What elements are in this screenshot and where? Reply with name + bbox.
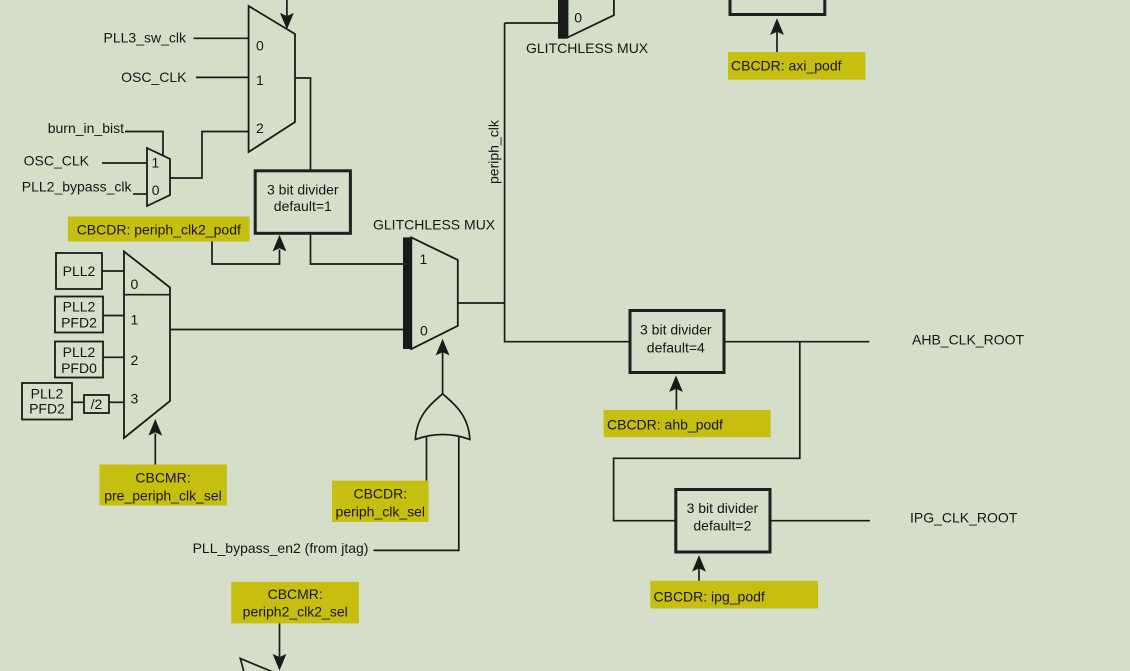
svg-text:1: 1 [131,311,139,327]
svg-text:IPG_CLK_ROOT: IPG_CLK_ROOT [910,510,1018,526]
svg-text:OSC_CLK: OSC_CLK [121,69,187,85]
divider D2 select arrow [776,32,778,53]
wire: periph_clk top into mux H input 0 [505,22,558,24]
svg-text:default=1: default=1 [274,198,332,214]
svg-text:CBCMR:: CBCMR: [135,470,190,486]
wire: yellow Y1 to divider D1 select [212,241,280,264]
wire /2 to mux C input 3 [109,401,124,403]
wire: PLL3_sw_clk into mux A input 0 [194,37,249,39]
yellow label Y5 CBCDR: axi_podf [728,52,865,80]
divider D1 (3 bit divider default=1) [255,171,350,234]
svg-text:AHB_CLK_ROOT: AHB_CLK_ROOT [912,332,1024,348]
wire: OSC_CLK into mux A input 1 [196,76,249,78]
svg-text:1: 1 [420,251,428,267]
mux B (bypass mux) [147,148,170,206]
yellow label Y3 CBCDR: periph_clk_sel [332,481,429,522]
svg-text:default=2: default=2 [693,518,751,534]
svg-text:CBCMR:: CBCMR: [268,586,323,602]
svg-text:PLL3_sw_clk: PLL3_sw_clk [104,29,187,45]
svg-text:0: 0 [131,276,139,292]
svg-text:PLL2: PLL2 [63,299,96,315]
OR gate G [415,394,469,440]
svg-text:default=4: default=4 [647,339,705,355]
mux F (bottom, cut off) [240,659,273,671]
svg-text:0: 0 [256,38,264,54]
mux E select arrowhead [436,339,450,356]
svg-text:0: 0 [574,10,582,26]
wire: AHB branch down to IPG divider [614,342,800,521]
wire: mux A output to divider D1 [295,78,311,171]
glitchless mux H (top) [558,0,567,39]
wire: AHB divider output to AHB_CLK_ROOT [724,341,869,343]
divider D3 (3 bit divider default=4) [630,311,724,373]
svg-text:1: 1 [152,155,160,171]
svg-text:CBCDR: periph_clk2_podf: CBCDR: periph_clk2_podf [77,221,241,237]
wire PLL2 PFD0 to mux C input 2 [103,356,124,358]
wire: burn_in_bist into mux B top [125,132,163,157]
svg-text:PFD0: PFD0 [61,360,97,376]
divider D2 (axi, cut off) [730,0,825,15]
svg-text:PLL2: PLL2 [63,344,96,360]
wire: PLL2_bypass_clk into mux B input 0 [133,193,148,195]
svg-text:3 bit divider: 3 bit divider [687,500,759,516]
svg-text:GLITCHLESS MUX: GLITCHLESS MUX [373,217,496,233]
svg-text:pre_periph_clk_sel: pre_periph_clk_sel [104,488,222,504]
wire: OSC_CLK into mux B input 1 [102,162,148,164]
wire: OR gate left input from Y3 [426,436,428,481]
wire PLL2 PFD2 to /2 [72,401,84,403]
svg-text:PLL2: PLL2 [63,263,96,279]
wire: small mux B output riser to mux A input 2 [170,132,249,179]
svg-text:3 bit divider: 3 bit divider [640,322,712,338]
svg-text:periph2_clk2_sel: periph2_clk2_sel [243,603,348,619]
svg-text:/2: /2 [91,396,103,412]
wire: mux E output to periph_clk node [458,302,505,304]
box PLL2 PFD2 [55,297,103,333]
box PLL2 [56,253,102,289]
svg-text:3 bit divider: 3 bit divider [267,181,339,197]
mux C select arrow [154,434,156,465]
svg-text:periph_clk_sel: periph_clk_sel [336,503,426,519]
svg-text:2: 2 [256,120,264,136]
svg-text:0: 0 [420,323,428,339]
wire: PLL_bypass_en2 to OR gate right input [374,437,459,550]
divider D3 select arrow [675,388,677,410]
svg-text:3: 3 [131,391,139,407]
wire: divider D1 output to glitchless mux E input 1 [311,233,404,264]
box PLL2 PFD2 (bottom) [22,383,72,420]
svg-text:PLL2_bypass_clk: PLL2_bypass_clk [22,178,133,194]
svg-text:CBCDR: axi_podf: CBCDR: axi_podf [731,58,842,74]
wire: periph_clk vertical trunk to AHB divider [505,23,630,342]
svg-text:PFD2: PFD2 [61,315,97,331]
svg-text:PFD2: PFD2 [29,401,65,417]
wire: pre-periph mux C output to mux E input 0 [170,329,403,331]
box /2 divider [84,395,109,413]
wire: IPG divider output to IPG_CLK_ROOT [770,520,870,522]
mux A (periph_clk2 mux) [249,6,295,152]
yellow label Y7 CBCDR: ipg_podf [650,581,818,609]
yellow label Y4 CBCMR: periph2_clk2_sel [231,582,359,624]
svg-text:2: 2 [131,352,139,368]
wire PLL2 to mux C input 0 [102,270,124,272]
glitchless mux E (center) [403,237,411,349]
yellow label Y2 CBCMR: pre_periph_clk_sel [100,465,228,506]
svg-text:0: 0 [152,182,160,198]
svg-text:GLITCHLESS MUX: GLITCHLESS MUX [526,40,649,56]
svg-text:CBCDR: ipg_podf: CBCDR: ipg_podf [654,589,765,605]
mux C internal chord under input 0 [124,294,170,296]
svg-text:PLL2: PLL2 [31,386,64,402]
svg-text:CBCDR: ahb_podf: CBCDR: ahb_podf [607,417,723,433]
svg-text:periph_clk: periph_clk [486,119,502,184]
mux C (pre_periph mux) [124,252,170,439]
svg-text:CBCDR:: CBCDR: [353,485,407,501]
svg-text:1: 1 [256,72,264,88]
wire: OR gate output up [442,352,444,394]
divider D4 select arrow [698,568,700,581]
svg-text:PLL_bypass_en2 (from jtag): PLL_bypass_en2 (from jtag) [193,540,369,556]
Y4 select arrow down [279,623,281,657]
svg-text:burn_in_bist: burn_in_bist [48,120,124,136]
box PLL2 PFD0 [55,342,103,378]
divider D1 select arrowhead [273,235,287,252]
mux A select arrow [286,0,288,16]
divider D4 (3 bit divider default=2) [676,490,770,553]
wire PLL2 PFD2 to mux C input 1 [103,315,124,317]
yellow label Y6 CBCDR: ahb_podf [604,410,771,437]
svg-text:OSC_CLK: OSC_CLK [24,152,90,168]
yellow label Y1 CBCDR: periph_clk2_podf [68,217,250,242]
